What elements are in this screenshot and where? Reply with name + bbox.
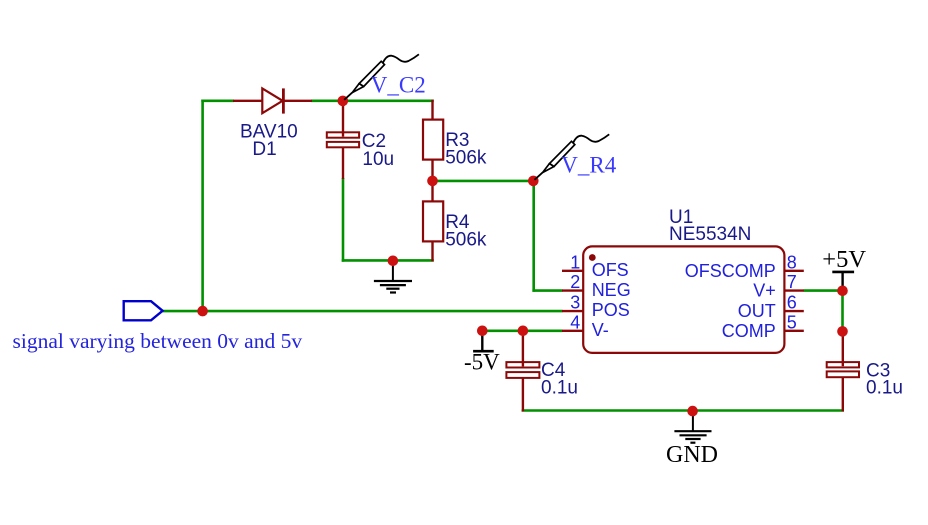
svg-text:5: 5 — [787, 312, 797, 332]
svg-text:signal varying between 0v and: signal varying between 0v and 5v — [13, 329, 303, 353]
svg-text:V-: V- — [592, 320, 609, 340]
svg-text:1: 1 — [570, 252, 580, 272]
svg-text:D1: D1 — [252, 139, 276, 160]
svg-text:7: 7 — [787, 272, 797, 292]
svg-text:0.1u: 0.1u — [866, 378, 903, 399]
svg-text:3: 3 — [570, 293, 580, 313]
svg-text:4: 4 — [570, 312, 580, 332]
svg-text:-5V: -5V — [464, 350, 500, 375]
svg-text:506k: 506k — [445, 229, 487, 250]
svg-text:+5V: +5V — [822, 246, 866, 273]
svg-text:V+: V+ — [753, 281, 776, 301]
svg-text:GND: GND — [666, 442, 718, 468]
svg-text:506k: 506k — [445, 147, 487, 168]
svg-text:6: 6 — [787, 293, 797, 313]
svg-text:OUT: OUT — [738, 301, 776, 321]
svg-text:POS: POS — [592, 300, 630, 320]
svg-text:COMP: COMP — [722, 321, 776, 341]
svg-text:10u: 10u — [362, 149, 394, 170]
svg-text:NE5534N: NE5534N — [669, 224, 751, 245]
svg-text:8: 8 — [787, 252, 797, 272]
svg-text:V_C2: V_C2 — [371, 73, 426, 98]
svg-text:2: 2 — [570, 272, 580, 292]
svg-text:V_R4: V_R4 — [561, 153, 616, 178]
svg-text:0.1u: 0.1u — [541, 377, 578, 398]
svg-text:OFS: OFS — [592, 260, 629, 280]
svg-text:OFSCOMP: OFSCOMP — [685, 261, 776, 281]
svg-text:NEG: NEG — [592, 280, 631, 300]
